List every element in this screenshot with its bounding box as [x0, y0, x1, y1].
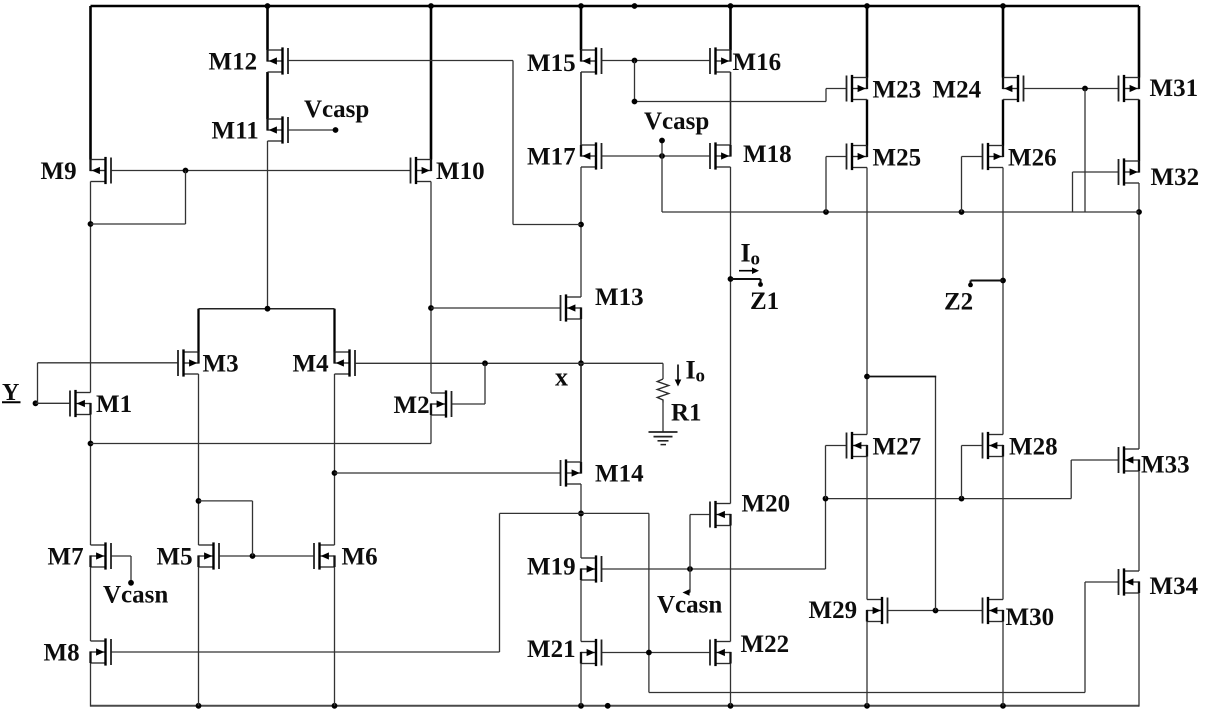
wire M20 gate riser [689, 515, 691, 570]
wire M28 source to M30 drain [1002, 457, 1004, 600]
wire M7 source to M8 drain [90, 567, 92, 641]
transistor M15 [581, 47, 602, 74]
wire M13 source to node X [580, 319, 582, 363]
wire M29 source to VSS [866, 622, 868, 706]
wire M14 drain down [580, 484, 582, 558]
wire VDD drop to M9 [89, 6, 92, 160]
node M5 gate-drain tie [196, 498, 202, 504]
wire M26 drain to Z2 and M28 drain [1002, 168, 1004, 435]
wire class-AB right drop [648, 513, 650, 692]
node Io arrow at R1 [677, 365, 679, 382]
svg-text:Z2: Z2 [944, 289, 973, 316]
node M14 gate tap [332, 470, 338, 476]
wire M20 gate lead [690, 514, 710, 516]
wire class-AB node right run [581, 512, 649, 514]
svg-text:Vcasn: Vcasn [103, 582, 168, 609]
wire Vcasn cascode run [826, 498, 1072, 500]
wire M24-M31 gate wire [1024, 88, 1119, 90]
svg-text:M15: M15 [527, 50, 576, 77]
wire Y riser to M3 [37, 363, 39, 404]
svg-text:M17: M17 [527, 144, 576, 171]
transistor M23 [847, 75, 868, 102]
wire M30 source to VSS [1002, 622, 1004, 706]
wire VDD drop to M10 [430, 6, 433, 160]
wire M28 gate lead [962, 445, 983, 447]
transistor M5 [199, 542, 220, 569]
wire Vcasn pointer arm [685, 592, 691, 594]
wire VDD drop to M31 [1138, 6, 1141, 78]
svg-text:M6: M6 [342, 544, 378, 571]
wire VSS bottom rail [91, 705, 1140, 707]
wire Vcasp terminal stub [661, 141, 663, 157]
svg-text:M16: M16 [733, 49, 782, 76]
node Vcasp terminal [659, 138, 665, 144]
transistor M22 [710, 639, 731, 666]
wire VDD drop to M23 [866, 6, 869, 78]
wire run to M8 gate [111, 651, 500, 653]
wire M29 mirror riser [935, 377, 937, 611]
wire M28 gate riser [961, 446, 963, 499]
wire M9 drain to M1 drain [90, 182, 92, 393]
wire M4 drain to M6 drain [334, 374, 336, 545]
wire M12 gate tie to M17 drain [513, 224, 581, 226]
svg-text:o: o [696, 366, 706, 387]
wire M33 source to M34 drain [1138, 471, 1140, 571]
wire M17 drain to M13 drain [580, 167, 582, 297]
wire VDD drop to M15 [580, 6, 583, 50]
wire M25 gate riser [825, 157, 827, 213]
wire M32 gate riser [1072, 172, 1074, 212]
svg-text:M21: M21 [527, 636, 576, 663]
node M21-M22 gate junction [646, 650, 652, 656]
svg-text:M20: M20 [742, 491, 791, 518]
svg-text:M9: M9 [41, 158, 77, 185]
transistor M2 [431, 390, 452, 417]
wire M29 mirror tie [867, 376, 936, 378]
wire M31 drain to M32 source [1138, 100, 1140, 162]
wire M6 source to VSS [334, 567, 336, 706]
wire VDD drop to M24 [1002, 6, 1005, 78]
wire M14 gate lead [335, 472, 561, 474]
node Y underline [2, 401, 21, 403]
node M26 gate tap [959, 209, 965, 215]
node Vcasn terminal [128, 580, 134, 586]
wire M12 drain to M11 source [266, 72, 269, 119]
svg-text:M12: M12 [209, 49, 258, 76]
node Vcasn pointer arrowhead [683, 589, 690, 596]
node Z1 terminal [758, 282, 763, 287]
wire M21 source to VSS [580, 664, 582, 706]
svg-text:M23: M23 [873, 77, 922, 104]
node Y terminal [33, 400, 39, 406]
svg-text:M30: M30 [1006, 604, 1055, 631]
wire M23 gate riser [825, 89, 827, 102]
transistor M17 [581, 142, 602, 169]
wire M5 diode riser [252, 501, 254, 556]
wire M10 drain to M2 drain [430, 182, 432, 394]
wire M29-M30 gate wire [888, 610, 983, 612]
node Vcasp wire end [1136, 209, 1142, 215]
svg-text:M33: M33 [1141, 452, 1190, 479]
wire Vcasp distribution run [662, 211, 1139, 213]
wire M1 source to M7 drain [90, 415, 92, 546]
wire M7 gate lead [111, 555, 131, 557]
wire M11 drain to diff pair tail [267, 141, 269, 309]
svg-text:M4: M4 [293, 351, 330, 378]
node M12 gate tie [578, 222, 584, 228]
wire M8 source to VSS [90, 663, 92, 707]
wire M19 drain-source column [580, 580, 582, 642]
svg-text:M13: M13 [595, 284, 644, 311]
transistor M11 [268, 116, 289, 143]
wire Vcasn pointer stub [689, 569, 691, 593]
node tail junction [265, 306, 271, 312]
transistor M1 [70, 390, 91, 417]
node Z2 on column [1000, 278, 1006, 284]
wire mirror gate riser [634, 61, 636, 102]
transistor M34 [1119, 568, 1140, 595]
wire M3 gate lead [38, 362, 179, 364]
wire M34 source to VSS corner [1138, 593, 1140, 707]
ground [649, 431, 678, 433]
transistor M21 [581, 639, 602, 666]
transistor M27 [847, 432, 868, 459]
wire M24-M31 gate riser [1084, 89, 1086, 213]
wire VDD drop to M12 [266, 6, 269, 50]
transistor M25 [847, 143, 868, 170]
node mirror gate corner [632, 99, 638, 105]
wire R1 to ground [662, 403, 664, 433]
node M9 gate junction [183, 168, 189, 174]
node M2 gate tap on X [482, 360, 488, 366]
node M9 gate-drain tie [88, 221, 94, 227]
transistor M26 [983, 143, 1004, 170]
svg-text:x: x [555, 363, 568, 392]
svg-text:M27: M27 [873, 434, 922, 461]
wire Vcasn terminal stub [130, 556, 132, 583]
wire M26 gate lead [962, 156, 983, 158]
wire tail bracket to M4 source [333, 309, 335, 352]
wire M12 gate riser [512, 61, 514, 225]
wire M23 drain to M25 source [866, 100, 868, 146]
wire M32 gate lead [1073, 171, 1119, 173]
node M28 gate junction [959, 496, 965, 502]
node Io arrow at Z1 [739, 270, 754, 272]
node class-AB lower node [578, 511, 584, 517]
svg-text:Vcasp: Vcasp [304, 96, 369, 123]
transistor M16 [710, 47, 731, 74]
wire M3 drain to M5 drain [198, 374, 200, 545]
svg-text:M29: M29 [809, 597, 858, 624]
wire X to R1 [662, 363, 664, 379]
wire M13 gate lead [431, 307, 561, 309]
svg-text:M19: M19 [527, 554, 576, 581]
wire M1-M2 source tie [91, 443, 432, 445]
transistor M18 [710, 142, 731, 169]
svg-text:M2: M2 [394, 392, 430, 419]
transistor M24 [1003, 75, 1024, 102]
node Z1 on column [728, 276, 734, 282]
wire M19 gate wire [602, 568, 826, 570]
svg-text:M34: M34 [1150, 573, 1199, 600]
svg-text:M22: M22 [741, 631, 790, 658]
wire M19 net riser [825, 499, 827, 569]
node top-rail junctions [265, 3, 271, 9]
svg-text:M28: M28 [1009, 434, 1058, 461]
node M1-M2 source join [88, 441, 94, 447]
wire VDD top rail [91, 5, 1140, 8]
transistor M19 [581, 555, 602, 582]
svg-text:Vcasn: Vcasn [657, 592, 722, 619]
svg-text:M24: M24 [933, 77, 982, 104]
wire M20 source to M22 drain [730, 526, 732, 642]
svg-text:M3: M3 [203, 351, 239, 378]
svg-text:Z1: Z1 [750, 288, 779, 315]
wire M16 drain to M18 source [730, 72, 732, 145]
wire M33 gate lead [1071, 459, 1118, 461]
node M13 gate tap [428, 305, 434, 311]
wire M5-M6 gate wire [219, 555, 314, 557]
wire run to M34 gate [649, 692, 1085, 694]
wire M25 drain to M27 drain [866, 168, 868, 435]
wire M5 source to VSS [198, 567, 200, 706]
transistor M7 [91, 542, 112, 569]
wire node X run [355, 362, 663, 364]
node M24-M31 gate junction [1082, 86, 1088, 92]
wire Vcasp riser down [661, 156, 663, 212]
svg-text:o: o [751, 249, 761, 270]
wire tail bracket to M3 source [197, 309, 199, 352]
node Z2 terminal [968, 283, 973, 288]
wire M22 source to VSS [730, 664, 732, 706]
node Vcasp terminal at M11 [333, 127, 339, 133]
wire M9 diode riser [185, 171, 187, 225]
svg-text:I: I [686, 356, 696, 385]
wire Z1 stub [731, 278, 761, 280]
svg-text:Vcasp: Vcasp [644, 108, 709, 135]
transistor M6 [314, 542, 335, 569]
transistor M32 [1119, 158, 1140, 185]
wire VDD drop to M16 [729, 6, 732, 50]
wire M23 gate lead [826, 88, 847, 90]
wire M34 gate riser [1084, 582, 1086, 693]
wire M2 gate lead [452, 403, 486, 405]
wire M27 source to M29 drain [866, 457, 868, 600]
wire class-AB left drop [499, 513, 501, 652]
svg-text:M7: M7 [48, 544, 84, 571]
wire M18 drain to Z1 and M20 drain [730, 167, 732, 504]
transistor M31 [1119, 75, 1140, 102]
transistor M30 [983, 597, 1004, 624]
wire M34 gate lead [1085, 581, 1119, 583]
wire M27 gate lead [826, 445, 847, 447]
node M27 gate junction [823, 496, 829, 502]
svg-text:M25: M25 [873, 145, 922, 172]
wire M12 gate lead [288, 60, 513, 62]
wire M15 drain to M17 source [580, 72, 582, 145]
wire M9 diode run [91, 223, 186, 225]
node Vcasp junction [659, 153, 665, 159]
resistor R1 [657, 379, 668, 403]
wire M2 source bend [430, 415, 432, 444]
transistor M14 [561, 459, 582, 486]
wire Y to M1 gate [36, 402, 71, 404]
wire M33 gate riser [1070, 460, 1072, 499]
wire M5 diode tie [199, 500, 253, 502]
svg-text:M26: M26 [1008, 145, 1057, 172]
transistor M29 [867, 597, 888, 624]
wire M25 gate lead [826, 156, 847, 158]
wire node X to M14 source [580, 363, 582, 462]
svg-text:M1: M1 [96, 391, 132, 418]
transistor M8 [91, 638, 112, 665]
svg-text:M10: M10 [436, 158, 485, 185]
node bottom-rail junctions [196, 703, 202, 709]
wire M11 gate lead [288, 129, 336, 131]
svg-text:M5: M5 [157, 544, 193, 571]
transistor M3 [178, 349, 199, 376]
transistor M13 [561, 294, 582, 321]
svg-text:M8: M8 [44, 640, 80, 667]
wire M24 drain to M26 source [1002, 100, 1004, 146]
svg-text:M18: M18 [743, 141, 792, 168]
wire M2 gate riser [484, 363, 486, 404]
node X junction [578, 360, 584, 366]
svg-text:I: I [741, 239, 751, 268]
transistor M20 [710, 501, 731, 528]
wire M17-M18 gate wire [602, 155, 711, 157]
node M5 gate junction [250, 553, 256, 559]
wire M15-M16 gate wire [602, 60, 711, 62]
svg-text:M14: M14 [595, 461, 644, 488]
transistor M33 [1119, 446, 1140, 473]
node Vcasn junction [687, 566, 693, 572]
wire M9-M10 gate wire [111, 170, 411, 172]
wire Z2 stub [971, 279, 1004, 281]
node M29-M30 gate junction [933, 608, 939, 614]
svg-text:M11: M11 [212, 118, 259, 145]
transistor M28 [983, 432, 1004, 459]
node M15-M16 gate junction [632, 58, 638, 64]
wire diff pair tail bracket [199, 308, 335, 310]
transistor M12 [268, 47, 289, 74]
svg-text:M32: M32 [1151, 164, 1200, 191]
transistor M10 [411, 157, 432, 184]
wire M32 drain down to M33 [1138, 183, 1140, 449]
wire M27 gate riser [825, 446, 827, 499]
svg-text:M31: M31 [1150, 75, 1199, 102]
wire class-AB node left run [500, 512, 582, 514]
svg-text:R1: R1 [671, 400, 702, 427]
wire M8 gate lead (part of run) [111, 651, 112, 653]
wire mirror gate run to M23 [635, 101, 827, 103]
node M29 mirror tap [864, 374, 870, 380]
transistor M9 [91, 157, 112, 184]
wire M21-M22 gate wire [602, 652, 711, 654]
wire M26 gate riser [961, 157, 963, 213]
node M25 gate tap [823, 209, 829, 215]
transistor M4 [335, 349, 356, 376]
